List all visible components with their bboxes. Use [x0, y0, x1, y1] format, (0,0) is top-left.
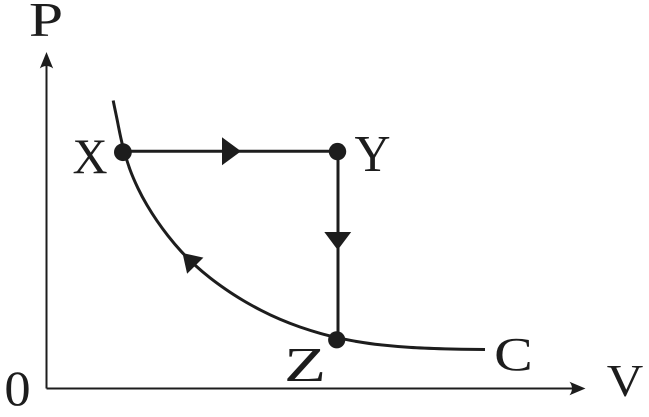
node Z dot: [328, 331, 345, 348]
svg-text:0: 0: [4, 361, 30, 417]
svg-text:Y: Y: [354, 126, 390, 183]
P axis (vertical): [40, 52, 53, 389]
wire X to Y (isobaric line): [123, 150, 338, 153]
node Y dot: [329, 143, 346, 160]
arrow Y to Z: [324, 232, 351, 250]
V axis (horizontal): [47, 382, 586, 395]
arrow Z to X on curve: [183, 253, 204, 274]
svg-text:X: X: [72, 128, 107, 184]
node X dot: [114, 143, 132, 161]
svg-text:C: C: [494, 329, 533, 381]
svg-text:Z: Z: [284, 338, 326, 392]
isotherm curve C: [113, 101, 485, 350]
svg-text:V: V: [607, 356, 644, 406]
arrow X to Y: [222, 137, 241, 165]
svg-text:P: P: [29, 0, 63, 46]
wire Y to Z (isochoric line): [337, 152, 340, 339]
